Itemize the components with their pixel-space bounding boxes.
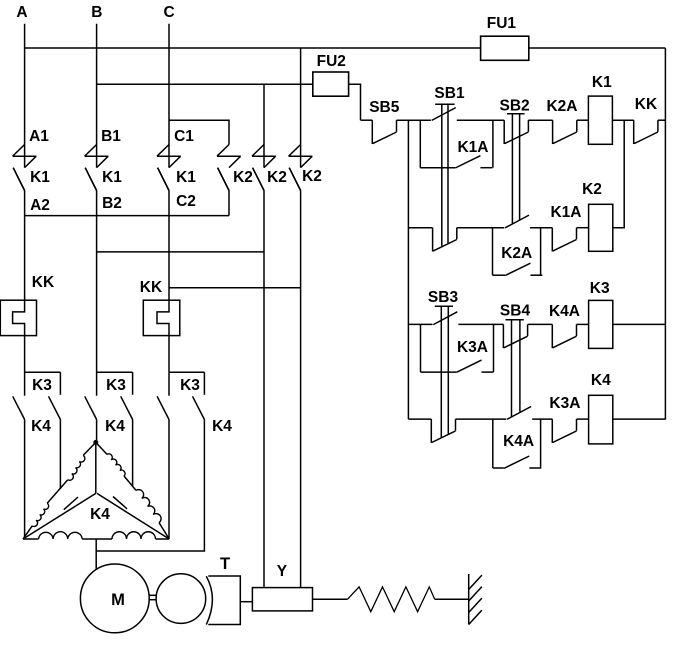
svg-text:K2A: K2A xyxy=(501,245,532,262)
delta right slope xyxy=(96,442,107,454)
thermal relay KK phase C xyxy=(143,300,180,335)
coil K2 xyxy=(589,204,613,251)
svg-text:K2: K2 xyxy=(267,169,287,186)
wire Y box to spring xyxy=(313,598,348,600)
breaker symbol on A xyxy=(13,155,37,157)
wire column3 lower xyxy=(300,191,302,588)
wire right rail xyxy=(664,48,666,420)
delta inner V left xyxy=(23,493,96,539)
svg-text:M: M xyxy=(111,591,125,609)
wire K4A branch left drop xyxy=(492,419,494,468)
contact K4 blade inner right xyxy=(113,497,127,509)
svg-text:SB4: SB4 xyxy=(500,303,531,320)
wire phase A mid xyxy=(24,191,26,301)
wire apex to V vertex xyxy=(95,442,97,493)
contact K1 phase C xyxy=(158,168,169,191)
contact SB2 row1 xyxy=(503,120,505,144)
contact SB1 row2 xyxy=(432,228,434,252)
svg-text:K1: K1 xyxy=(102,169,122,186)
delta left slope xyxy=(83,442,96,455)
wire SB4 to K4A xyxy=(528,323,553,325)
svg-text:SB5: SB5 xyxy=(369,99,400,116)
contact K4 blade 3 xyxy=(157,396,169,419)
wire row2 from rail xyxy=(408,227,432,229)
svg-text:A: A xyxy=(16,4,27,21)
svg-text:A2: A2 xyxy=(30,197,50,214)
svg-text:FU2: FU2 xyxy=(317,53,346,70)
svg-text:K1: K1 xyxy=(30,169,50,186)
coupling wheel xyxy=(156,574,206,624)
svg-text:K2: K2 xyxy=(302,168,322,185)
svg-text:K2A: K2A xyxy=(546,98,577,115)
wire fork1 left to delta BL xyxy=(24,420,26,540)
svg-text:K3: K3 xyxy=(106,377,126,394)
svg-text:K4A: K4A xyxy=(503,433,534,450)
contact K2 column2 xyxy=(253,168,264,191)
contact K2 column3 xyxy=(289,168,300,191)
wire delta to motor xyxy=(95,539,97,570)
wire fork3 right down to brake feed xyxy=(96,420,204,552)
svg-text:Y: Y xyxy=(277,563,288,580)
fork bar 2 xyxy=(97,371,133,373)
wire row4 mid xyxy=(456,418,507,420)
contact K4 blade 1 xyxy=(13,396,25,419)
contact K3 blade 3 xyxy=(193,396,205,419)
svg-text:C2: C2 xyxy=(176,193,196,210)
svg-text:C1: C1 xyxy=(174,128,194,145)
svg-text:SB3: SB3 xyxy=(428,289,459,306)
wire C to column3 xyxy=(169,287,301,289)
solenoid Y box xyxy=(252,588,312,611)
contact K4 branch 2 upper xyxy=(96,372,98,396)
contact K3 branch 3 upper xyxy=(203,372,205,395)
contact SB4 row4 blade xyxy=(507,407,531,420)
fork bar 3 xyxy=(169,371,204,373)
svg-text:K1: K1 xyxy=(176,169,196,186)
spring xyxy=(347,587,434,612)
svg-text:K4: K4 xyxy=(212,418,232,435)
wire K2A to K1 coil xyxy=(577,119,589,121)
svg-text:K1: K1 xyxy=(592,74,612,91)
svg-text:A1: A1 xyxy=(29,128,49,145)
wire spring to wall xyxy=(435,598,469,600)
wire column2 upper xyxy=(263,84,265,167)
shaft double line xyxy=(149,594,157,596)
wire KK to right rail xyxy=(658,119,666,121)
svg-text:K1A: K1A xyxy=(457,139,488,156)
contact SB2 row2 blade xyxy=(505,215,529,228)
svg-text:K1A: K1A xyxy=(550,204,581,221)
svg-text:K4A: K4A xyxy=(549,303,580,320)
thermal relay KK phase A xyxy=(0,300,36,335)
wire K1 coil to KK xyxy=(612,119,633,121)
contact SB3 row4 xyxy=(430,419,432,443)
svg-text:KK: KK xyxy=(32,274,55,291)
wire K4 coil to right rail xyxy=(613,418,666,420)
wire column3 upper xyxy=(300,48,302,168)
wire K2A branch left drop xyxy=(492,228,494,276)
svg-text:KK: KK xyxy=(140,279,163,296)
wire bus B to column2 xyxy=(97,251,264,253)
fuse FU2 xyxy=(313,72,349,96)
contact K1 phase B xyxy=(85,168,96,191)
wire phase B mid xyxy=(96,191,98,373)
wire SB1 to SB2 xyxy=(457,119,504,121)
wire phase C below KK xyxy=(168,336,170,373)
delta apex junction xyxy=(94,440,98,444)
breaker symbol on B xyxy=(85,155,109,157)
svg-text:KK: KK xyxy=(635,96,658,113)
delta inner V right xyxy=(97,493,169,539)
svg-text:SB1: SB1 xyxy=(434,85,465,102)
svg-text:K4: K4 xyxy=(105,418,125,435)
svg-text:SB2: SB2 xyxy=(500,98,530,115)
wire row3 from rail xyxy=(408,323,432,325)
wire SB4 to K3A row4 xyxy=(532,418,552,420)
wire K3 coil to right rail xyxy=(613,323,666,325)
contact K4 branch 3 upper xyxy=(168,372,170,396)
wire left rail xyxy=(407,120,409,419)
contact K2 column1 xyxy=(218,168,229,191)
svg-text:T: T xyxy=(220,555,230,573)
wire fork2 left to apex xyxy=(96,420,98,443)
wire K1A branch xyxy=(420,167,455,169)
svg-text:K4: K4 xyxy=(591,372,611,389)
contact K4 blade 2 xyxy=(85,396,97,419)
delta bottom side xyxy=(23,538,39,540)
svg-text:B1: B1 xyxy=(101,128,121,145)
wire column2 lower xyxy=(263,191,265,588)
wire K2A branch bottom xyxy=(493,274,506,276)
svg-text:K4: K4 xyxy=(31,418,51,435)
wire line1 from A to right corner xyxy=(25,47,666,49)
fork bar 1 xyxy=(25,371,61,373)
wire K4A branch right riser xyxy=(540,419,542,468)
contact K3 blade 2 xyxy=(121,396,133,419)
wire K3A branch riser xyxy=(493,324,495,372)
coil K3 xyxy=(589,300,613,348)
wire K4A branch bottom xyxy=(493,467,504,469)
motor M xyxy=(80,564,149,633)
svg-text:B2: B2 xyxy=(102,195,122,212)
wire bus A2-B2-C2 xyxy=(25,215,229,217)
wire K4A to K3 coil xyxy=(577,323,589,325)
breaker symbol on col1 xyxy=(217,155,241,157)
contact SB4 row3 xyxy=(502,324,504,348)
wire phase A vertical upper xyxy=(24,24,26,168)
wire K2A branch right riser xyxy=(540,228,542,276)
coil K4 xyxy=(589,395,613,444)
wire K2 coil output riser xyxy=(613,120,624,228)
wire K3A to K4 coil xyxy=(577,418,589,420)
wire fork2 right to right slope xyxy=(132,420,134,488)
wire fork1 right to left slope xyxy=(59,420,61,490)
svg-text:C: C xyxy=(163,4,174,21)
svg-text:FU1: FU1 xyxy=(487,15,517,32)
wire fork3 left to delta BR xyxy=(168,420,170,540)
breaker symbol on col2 xyxy=(252,155,276,157)
svg-text:K3A: K3A xyxy=(457,339,488,356)
wire phase C vertical upper xyxy=(168,24,170,168)
svg-text:K2: K2 xyxy=(233,169,253,186)
wire SB2 to K2A xyxy=(528,119,552,121)
wire K3A branch drop xyxy=(420,324,422,372)
svg-text:K3: K3 xyxy=(32,377,52,394)
wire row4 from rail xyxy=(408,418,431,420)
wire phase B vertical upper xyxy=(96,24,98,168)
breaker symbol on C xyxy=(157,155,181,157)
wire phase A below KK xyxy=(24,336,26,373)
svg-text:B: B xyxy=(91,4,102,21)
coil K1 xyxy=(588,96,612,144)
wire row2 mid xyxy=(457,227,504,229)
wire phase C mid xyxy=(168,191,170,301)
wire K1A branch drop xyxy=(419,120,421,168)
wire K1A branch riser xyxy=(492,120,494,168)
contact K1 phase A xyxy=(13,168,24,191)
svg-text:K3A: K3A xyxy=(549,395,580,412)
wire SB3 to SB4 xyxy=(458,323,503,325)
contact K4 blade inner left xyxy=(64,497,78,510)
contact K3 branch 1 upper xyxy=(59,372,61,395)
wire C1 branch to column1 xyxy=(169,120,229,144)
brake T shoe xyxy=(206,576,212,624)
wire K1A to K2 coil xyxy=(577,227,589,229)
anchor wall xyxy=(468,574,470,625)
wire brake to Y box xyxy=(240,601,252,603)
wire SB2 to K1A row2 xyxy=(530,227,552,229)
wire column1 lower xyxy=(228,191,230,216)
wire K3A branch xyxy=(421,371,457,373)
svg-text:K3: K3 xyxy=(590,280,610,297)
wire SB5 to SB1 xyxy=(397,119,431,121)
contact K3 branch 2 upper xyxy=(132,372,134,395)
breaker symbol on col3 xyxy=(289,155,313,157)
svg-text:K4: K4 xyxy=(90,506,110,523)
contact K4 branch 1 upper xyxy=(24,372,26,396)
svg-text:K2: K2 xyxy=(582,181,602,198)
fuse FU1 xyxy=(481,36,529,60)
contact K3 blade 1 xyxy=(49,396,61,419)
svg-text:K3: K3 xyxy=(180,377,200,394)
wire line2 from B to FU2 drop xyxy=(97,84,361,120)
